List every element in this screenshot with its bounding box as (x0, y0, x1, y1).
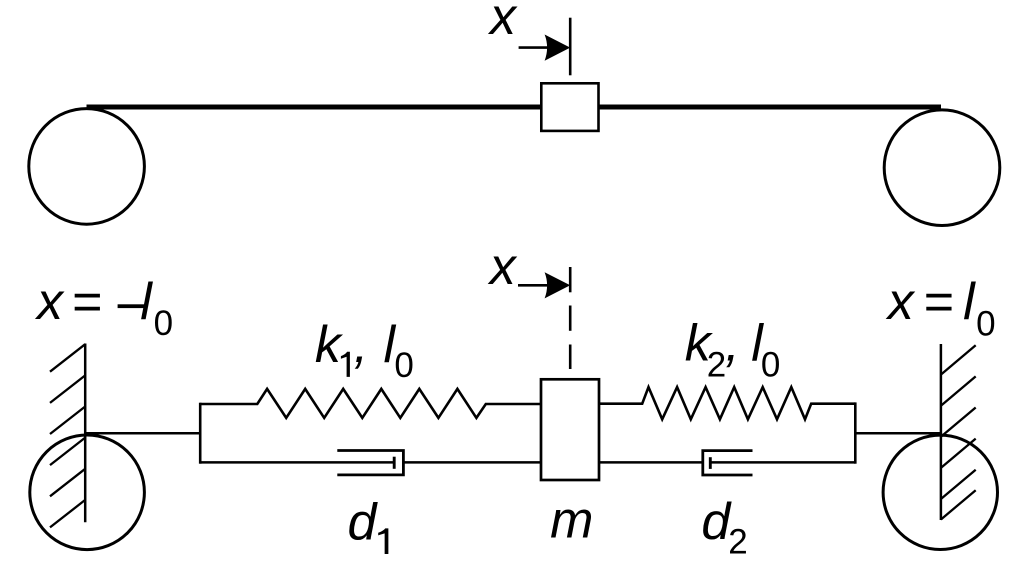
label d1 (348, 493, 389, 554)
belt line (87, 105, 942, 110)
svg-text:0: 0 (154, 304, 173, 343)
label k2, l0 (685, 315, 781, 385)
svg-text:k: k (315, 316, 344, 374)
right wall (940, 344, 943, 520)
svg-text:=: = (72, 273, 102, 331)
svg-text:0: 0 (394, 346, 413, 385)
svg-text:m: m (550, 491, 593, 549)
right pulley (top) (884, 110, 1000, 226)
damper d1 cylinder (337, 451, 403, 475)
svg-text:0: 0 (976, 304, 995, 343)
svg-text:,: , (725, 315, 739, 373)
mass block (top) (541, 83, 598, 131)
dashed reference line (569, 306, 572, 331)
label x = -l0 left (34, 273, 173, 343)
damper d2 rod left (599, 461, 703, 464)
arrow x (bottom) (518, 284, 549, 287)
damper d2 cylinder (703, 451, 753, 475)
svg-text:d: d (348, 493, 379, 551)
damper d1 rod right (403, 461, 541, 464)
label d2 (701, 493, 747, 561)
right pulley (bottom) (883, 435, 997, 549)
damper d1 piston (393, 457, 396, 469)
svg-text:x: x (885, 273, 916, 331)
svg-text:l: l (963, 273, 976, 331)
left wall hatches (50, 344, 85, 527)
svg-text:x: x (34, 273, 65, 331)
mass m block (541, 379, 599, 480)
wall link left (85, 432, 200, 435)
svg-text:x: x (487, 238, 518, 296)
right wall hatches (941, 345, 976, 519)
spring k2 (599, 387, 855, 419)
spring k1 (200, 389, 541, 418)
reference tick (top) (569, 18, 572, 76)
left bracket (199, 403, 202, 464)
left pulley (top) (29, 109, 145, 225)
svg-text:x: x (487, 0, 518, 46)
left wall (84, 344, 87, 523)
svg-text:l: l (140, 273, 153, 331)
left pulley (bottom) (30, 435, 145, 550)
reference tick (bottom) (569, 267, 572, 292)
arrow x (top) (519, 46, 549, 49)
right bracket (854, 402, 857, 463)
label k1, l0 (315, 316, 414, 385)
svg-text:,: , (354, 316, 368, 374)
wall link right (855, 432, 941, 435)
damper d2 rod right (710, 461, 855, 464)
damper d1 rod left (200, 461, 394, 464)
svg-text:=: = (924, 273, 954, 331)
svg-text:2: 2 (728, 522, 747, 561)
label x = l0 right (885, 273, 996, 343)
svg-text:0: 0 (761, 345, 780, 384)
damper d2 piston (709, 457, 712, 469)
svg-text:2: 2 (707, 345, 726, 384)
